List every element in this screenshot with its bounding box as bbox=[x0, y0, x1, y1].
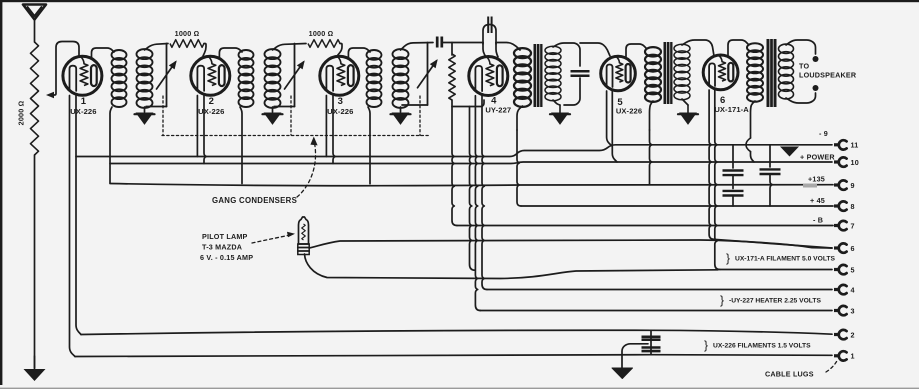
transformer T1 secondary bbox=[545, 46, 561, 101]
label V1 type bbox=[70, 107, 96, 116]
potentiometer R1 2000 ohm bbox=[31, 42, 39, 155]
coil L2 secondary bbox=[265, 49, 281, 108]
ground bbox=[24, 356, 46, 381]
wire bbox=[553, 100, 560, 105]
svg-text:3: 3 bbox=[851, 306, 855, 315]
tube V6 UX-171-A bbox=[703, 55, 738, 90]
label 6V 0.15 AMP bbox=[200, 253, 253, 262]
wire bbox=[470, 107, 476, 271]
scan border left bbox=[0, 0, 2, 385]
label V2 bbox=[209, 96, 214, 107]
svg-text:UX-226: UX-226 bbox=[616, 107, 642, 116]
resistor 1000 ohm bbox=[308, 40, 340, 48]
svg-text:}: } bbox=[726, 251, 730, 265]
wire bbox=[553, 43, 580, 66]
wire bbox=[325, 96, 327, 157]
svg-text:UX-226: UX-226 bbox=[198, 107, 224, 116]
pot tap arrow bbox=[46, 92, 54, 98]
wire bbox=[496, 43, 520, 51]
wire bbox=[92, 48, 115, 58]
cable lug 7 bbox=[834, 221, 855, 230]
wire bbox=[650, 101, 654, 185]
wire bbox=[517, 106, 523, 206]
svg-text:}: } bbox=[720, 293, 724, 307]
wire bbox=[715, 89, 720, 270]
transformer T1 primary bbox=[514, 48, 531, 107]
bus wire lug3 bbox=[480, 310, 832, 312]
wire bbox=[34, 20, 36, 43]
label V3 type bbox=[327, 107, 353, 116]
label TO bbox=[799, 62, 809, 71]
wire bbox=[53, 42, 79, 96]
brace bbox=[720, 293, 724, 307]
brace bbox=[726, 251, 730, 265]
grid cap condenser bbox=[488, 17, 491, 34]
wire bbox=[622, 344, 648, 355]
antenna bbox=[23, 5, 46, 20]
label V1 bbox=[81, 96, 87, 107]
wire bbox=[219, 48, 242, 58]
svg-text:11: 11 bbox=[851, 141, 859, 150]
svg-text:4: 4 bbox=[851, 285, 855, 294]
bypass capacitor C5 bbox=[571, 71, 590, 76]
tube V4 UY-227 bbox=[469, 57, 508, 96]
wire bbox=[204, 94, 206, 163]
variable capacitor C1 bbox=[157, 44, 177, 107]
wire bbox=[475, 96, 480, 311]
speaker terminal bbox=[813, 56, 819, 62]
bus wire -9 bbox=[76, 145, 832, 157]
ground bbox=[678, 105, 698, 124]
wire bbox=[144, 107, 146, 112]
wire bbox=[751, 152, 755, 162]
label T-3 MAZDA bbox=[202, 243, 242, 252]
wire bbox=[769, 145, 771, 167]
label +135 bbox=[808, 175, 825, 184]
bypass capacitor C9 bbox=[642, 337, 661, 351]
label V5 type bbox=[616, 107, 642, 116]
wire bbox=[196, 96, 198, 157]
wire bbox=[728, 40, 748, 55]
label V5 bbox=[617, 97, 623, 108]
svg-text:GANG CONDENSERS: GANG CONDENSERS bbox=[212, 196, 297, 205]
svg-text:1000 Ω: 1000 Ω bbox=[309, 29, 334, 38]
grid condenser C4 bbox=[437, 37, 442, 48]
wire bbox=[451, 43, 453, 56]
label filament 1.5V bbox=[713, 343, 811, 350]
ground bbox=[391, 113, 411, 124]
svg-text:+ POWER: + POWER bbox=[800, 153, 835, 162]
wire bbox=[751, 101, 756, 138]
label GANG CONDENSERS bbox=[212, 196, 297, 205]
tube V2 UX-226 bbox=[191, 56, 230, 95]
label V4 type bbox=[485, 106, 511, 115]
label 2000 ohm bbox=[17, 101, 26, 126]
cable lug 2 bbox=[834, 330, 855, 339]
bypass capacitor C7 bbox=[723, 191, 744, 196]
gang condenser linkage bbox=[162, 135, 430, 137]
svg-text:PILOT LAMP: PILOT LAMP bbox=[202, 232, 248, 241]
svg-text:UY-227: UY-227 bbox=[485, 106, 511, 115]
ground bbox=[550, 105, 570, 124]
label heater bbox=[729, 298, 821, 305]
wire bbox=[612, 90, 617, 162]
ground bbox=[263, 113, 283, 124]
wire bbox=[496, 43, 498, 58]
svg-text:UX-226 FILAMENTS 1.5 VOLTS: UX-226 FILAMENTS 1.5 VOLTS bbox=[713, 343, 811, 350]
cable lug 5 bbox=[834, 265, 855, 274]
svg-text:6: 6 bbox=[851, 244, 855, 253]
wire bbox=[273, 44, 307, 51]
wire bbox=[482, 100, 484, 107]
scan smudge bbox=[803, 184, 817, 188]
brace bbox=[704, 338, 708, 352]
transformer T3 secondary bbox=[779, 44, 794, 99]
label V2 type bbox=[198, 107, 224, 116]
wire bbox=[401, 43, 434, 51]
wire bbox=[452, 100, 457, 226]
gang link bbox=[419, 96, 421, 136]
wire bbox=[305, 254, 719, 279]
transformer T1 core bbox=[534, 44, 543, 107]
wire bbox=[732, 185, 734, 189]
bus wire lug2 bbox=[81, 330, 832, 334]
wire bbox=[682, 40, 714, 56]
gang link bbox=[162, 96, 164, 135]
label -9 bbox=[819, 129, 828, 138]
bus wire -B bbox=[457, 225, 833, 227]
label LOUDSPEAKER bbox=[799, 71, 857, 80]
wire bbox=[732, 175, 734, 185]
variable capacitor C3 bbox=[418, 43, 438, 106]
wire bbox=[786, 40, 816, 54]
svg-text:2: 2 bbox=[209, 96, 214, 107]
svg-text:CABLE LUGS: CABLE LUGS bbox=[765, 370, 814, 379]
wire bbox=[400, 107, 402, 112]
label V4 bbox=[491, 96, 497, 107]
wire bbox=[146, 106, 167, 108]
wire bbox=[483, 43, 486, 58]
cable lug 3 bbox=[834, 306, 855, 315]
resistor 1000 ohm bbox=[170, 40, 204, 48]
label 1000 ohm bbox=[309, 29, 334, 38]
wire bbox=[580, 43, 610, 56]
coil L1 secondary bbox=[137, 49, 153, 108]
grid leak resistor R2 bbox=[449, 54, 455, 100]
cable lug 1 bbox=[834, 351, 855, 360]
wire bbox=[564, 78, 580, 105]
cable lug 9 bbox=[834, 180, 855, 189]
wire bbox=[333, 94, 335, 163]
label PILOT LAMP bbox=[202, 232, 248, 241]
svg-text:1000 Ω: 1000 Ω bbox=[175, 29, 200, 38]
wire bbox=[732, 145, 734, 168]
coil L3 secondary bbox=[393, 49, 409, 108]
label 1000 ohm bbox=[175, 29, 200, 38]
wire bbox=[34, 155, 36, 368]
cable lug 6 bbox=[834, 243, 855, 252]
bus wire lug4 bbox=[487, 289, 832, 291]
wire bbox=[274, 106, 295, 108]
svg-text:UX-171-A: UX-171-A bbox=[714, 105, 749, 114]
svg-text:TO: TO bbox=[799, 62, 809, 71]
label V3 bbox=[338, 96, 343, 107]
power arrow bbox=[780, 147, 799, 157]
svg-text:-UY-227 HEATER 2.25 VOLTS: -UY-227 HEATER 2.25 VOLTS bbox=[729, 298, 821, 305]
transformer T2 core bbox=[664, 42, 673, 104]
cable lug 4 bbox=[834, 285, 855, 294]
callout dash bbox=[252, 232, 295, 243]
wire bbox=[443, 42, 483, 44]
variable capacitor C2 bbox=[285, 44, 305, 107]
svg-text:- 9: - 9 bbox=[819, 129, 828, 138]
wire bbox=[626, 44, 646, 57]
svg-text:5: 5 bbox=[851, 265, 855, 274]
wire bbox=[650, 330, 652, 354]
wire bbox=[682, 99, 688, 105]
bus wire +135 bbox=[110, 184, 833, 186]
wire bbox=[732, 196, 734, 207]
bus wire lug5 pilot bbox=[720, 269, 832, 271]
bus wire +power bbox=[110, 162, 832, 164]
bus wire lug1 bbox=[75, 355, 832, 357]
wire bbox=[272, 107, 274, 112]
wire bbox=[770, 174, 772, 206]
svg-text:10: 10 bbox=[851, 158, 859, 167]
bus wire lug6 bbox=[714, 239, 832, 248]
hop over -9 wire bbox=[746, 138, 751, 152]
wire bbox=[402, 104, 428, 106]
wire bbox=[452, 106, 481, 108]
ground bbox=[612, 355, 633, 378]
tube V3 UX-226 bbox=[320, 56, 359, 95]
tube V1 UX-226 bbox=[63, 56, 102, 95]
label +45 bbox=[810, 196, 825, 205]
svg-text:LOUDSPEAKER: LOUDSPEAKER bbox=[799, 71, 857, 80]
wire bbox=[482, 95, 487, 290]
cable lug 8 bbox=[834, 201, 855, 210]
svg-text:T-3 MAZDA: T-3 MAZDA bbox=[202, 243, 242, 252]
wire bbox=[110, 107, 112, 183]
bus wire +45 bbox=[521, 205, 833, 207]
label V6 type bbox=[714, 105, 749, 114]
gang link bbox=[290, 96, 292, 135]
wire bbox=[709, 90, 714, 239]
callout dash bbox=[297, 137, 318, 198]
svg-text:9: 9 bbox=[851, 181, 855, 190]
tube V5 UX-226 bbox=[601, 56, 636, 91]
svg-text:UX-226: UX-226 bbox=[327, 107, 353, 116]
label +POWER bbox=[800, 153, 835, 162]
wire bbox=[145, 44, 169, 51]
transformer T2 primary bbox=[645, 47, 661, 102]
coil L3 primary bbox=[367, 50, 382, 107]
cable lug 10 bbox=[834, 157, 859, 166]
callout dash bbox=[826, 359, 838, 372]
wire bbox=[483, 25, 496, 45]
coil L2 primary bbox=[239, 50, 254, 107]
pilot lamp bbox=[298, 217, 309, 255]
wire bbox=[70, 96, 76, 357]
wire bbox=[337, 44, 342, 57]
wire bbox=[203, 44, 206, 57]
transformer T3 core bbox=[767, 39, 777, 107]
svg-text:UX-226: UX-226 bbox=[70, 107, 96, 116]
svg-text:1: 1 bbox=[851, 352, 855, 361]
wire bbox=[76, 94, 81, 334]
scan border top bbox=[0, 0, 919, 2]
svg-text:}: } bbox=[704, 338, 708, 352]
svg-text:UX-171-A FILAMENT 5.0 VOLTS: UX-171-A FILAMENT 5.0 VOLTS bbox=[735, 256, 835, 263]
svg-text:7: 7 bbox=[851, 221, 855, 230]
svg-text:+ 45: + 45 bbox=[810, 196, 825, 205]
svg-text:2000 Ω: 2000 Ω bbox=[17, 101, 26, 126]
wire bbox=[309, 240, 832, 248]
svg-text:+135: +135 bbox=[808, 175, 825, 184]
scan border bottom bbox=[0, 388, 919, 389]
transformer T3 primary bbox=[747, 43, 763, 102]
transformer T2 secondary bbox=[674, 44, 690, 100]
label CABLE LUGS bbox=[765, 370, 814, 379]
cable lug 11 bbox=[834, 140, 859, 149]
svg-text:3: 3 bbox=[338, 96, 343, 107]
label filament 5V bbox=[735, 256, 835, 263]
bypass capacitor C8 bbox=[760, 169, 781, 174]
ground bbox=[135, 113, 155, 124]
wire bbox=[607, 91, 612, 146]
svg-text:2: 2 bbox=[851, 330, 855, 339]
label V6 bbox=[720, 95, 725, 106]
svg-text:8: 8 bbox=[851, 202, 855, 211]
svg-text:1: 1 bbox=[81, 96, 87, 107]
wire bbox=[348, 48, 370, 58]
wire bbox=[368, 107, 370, 184]
speaker terminal bbox=[813, 85, 819, 91]
svg-text:6 V. - 0.15 AMP: 6 V. - 0.15 AMP bbox=[200, 253, 253, 262]
wire bbox=[240, 107, 242, 184]
svg-text:- B: - B bbox=[813, 216, 823, 225]
coil L1 primary bbox=[112, 50, 127, 107]
wire bbox=[786, 93, 816, 103]
bypass capacitor C6 bbox=[723, 171, 744, 176]
label -B bbox=[813, 216, 823, 225]
